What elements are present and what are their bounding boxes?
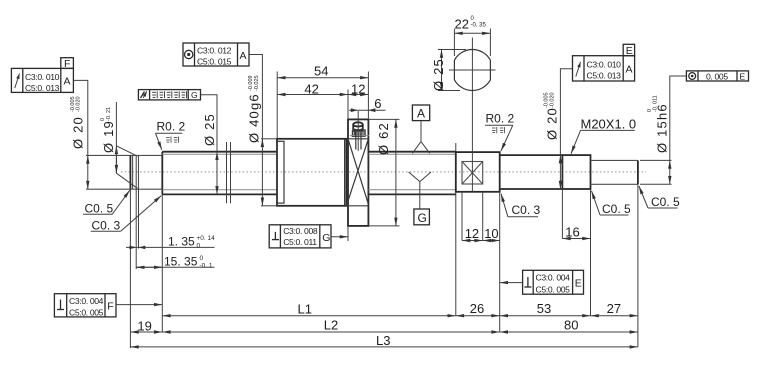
C0.3 right leader xyxy=(501,194,508,217)
thread boundary mark 1 xyxy=(226,142,228,203)
dim L3 line xyxy=(130,346,638,348)
left end chamfer line xyxy=(132,155,134,189)
circle detail vertical centerline down to keyseat xyxy=(471,38,473,192)
bolt head body xyxy=(353,124,363,130)
svg-text:-0. 21: -0. 21 xyxy=(106,107,112,121)
M20 underline xyxy=(581,129,635,131)
O25 screw section top outline right xyxy=(368,151,455,153)
R0.2 left leader xyxy=(156,133,162,150)
svg-text:80: 80 xyxy=(564,318,578,333)
flange top inner line across X xyxy=(348,138,368,140)
nut body right chamfer line xyxy=(344,139,346,206)
svg-text:6: 6 xyxy=(374,96,381,111)
dim 42 line xyxy=(277,94,348,96)
C0.5 right1 underline xyxy=(600,214,629,216)
dim O20 right arrow span xyxy=(559,155,561,189)
dim O25 circle ext top xyxy=(438,49,466,51)
svg-text:C3:0. 010: C3:0. 010 xyxy=(25,72,60,82)
dim 19 line xyxy=(130,331,162,333)
svg-text:A: A xyxy=(240,50,247,62)
datum G chevron xyxy=(409,172,431,182)
dim O25 left arrow span xyxy=(216,152,218,195)
ext line nut body left up xyxy=(276,72,278,139)
svg-text:F: F xyxy=(107,300,113,312)
bolt centerline xyxy=(357,111,359,151)
datum G box xyxy=(414,209,430,225)
svg-text:Ø 62: Ø 62 xyxy=(376,122,391,155)
M20 thread block outline xyxy=(562,155,590,189)
ext M20 left down xyxy=(561,189,563,239)
svg-text:0: 0 xyxy=(200,255,204,262)
C0.5 left underline xyxy=(83,213,112,215)
O20 right journal bottom edge xyxy=(500,188,563,190)
svg-text:C5:0. 013: C5:0. 013 xyxy=(587,70,622,80)
svg-text:Ø 20: Ø 20 xyxy=(545,107,560,140)
datum A chevron xyxy=(412,142,429,154)
dim 15.35 line xyxy=(136,266,214,268)
dim 53 line xyxy=(500,315,591,317)
centerline shaft axis xyxy=(121,171,646,173)
svg-text:-0. 1: -0. 1 xyxy=(200,263,213,270)
O25 screw section bottom outline right xyxy=(368,193,455,195)
feature frame top-left circular runout C3/C5 datum A xyxy=(11,68,73,93)
C0.3 left underline xyxy=(91,230,121,232)
flange bottom inner line across X xyxy=(348,205,368,207)
screw thread root line top left xyxy=(162,153,277,155)
datum E box top-right xyxy=(623,44,634,57)
svg-text:C3:0. 008: C3:0. 008 xyxy=(283,226,318,236)
R0.2 left underline xyxy=(156,132,183,134)
feature frame bottom-mid perpendicularity C3/C5 datum E xyxy=(500,270,584,294)
screw thread root line bottom right xyxy=(368,189,455,191)
dim O15h6 ext top xyxy=(640,159,672,161)
circle detail horizontal centerline xyxy=(449,69,496,71)
svg-text:-0.020: -0.020 xyxy=(76,96,82,112)
R0.2 left small korean xyxy=(166,137,178,143)
svg-text:C0. 3: C0. 3 xyxy=(92,219,121,233)
dim 1.35 arrow right xyxy=(139,246,146,250)
dim 6 line with outside arrows xyxy=(349,109,386,111)
dim 1.35 arrow left xyxy=(129,246,136,250)
svg-text:Ø 20: Ø 20 xyxy=(71,116,86,149)
flange cross X diagonal 2 xyxy=(348,139,368,205)
O25 screw section top outline left xyxy=(162,151,277,153)
dim O62 line xyxy=(395,119,397,225)
feature frame concentricity C3/C5 datum A xyxy=(183,43,249,67)
dim O20 right line with leader from E frame xyxy=(560,69,572,155)
bolt washer small block xyxy=(352,131,355,136)
svg-text:12: 12 xyxy=(465,226,479,241)
dim O40g6 arrow span xyxy=(261,139,263,206)
flange outline xyxy=(348,119,368,225)
keyseat X diagonal 2 xyxy=(462,162,483,185)
dim L1 line xyxy=(162,315,456,317)
svg-text:L1: L1 xyxy=(298,302,312,317)
bolt washer inner line 1 xyxy=(354,131,365,133)
feature frame top-right circular runout C3/C5 datum A xyxy=(573,56,635,81)
svg-text:C3:0. 010: C3:0. 010 xyxy=(587,59,622,69)
relief groove right edge xyxy=(138,155,140,189)
ext line flange right up xyxy=(367,72,369,120)
svg-text:E: E xyxy=(575,277,582,289)
svg-text:C0. 3: C0. 3 xyxy=(512,203,541,217)
ext line groove left down xyxy=(135,189,137,269)
O20 right journal top edge xyxy=(500,154,563,156)
svg-text:C5:0. 015: C5:0. 015 xyxy=(197,57,232,67)
svg-text:C3:0. 012: C3:0. 012 xyxy=(197,46,232,56)
svg-text:C5:0. 013: C5:0. 013 xyxy=(25,83,60,93)
svg-text:42: 42 xyxy=(304,81,318,96)
ext block right down xyxy=(499,192,501,332)
C0.3 right underline xyxy=(508,216,538,218)
dim L2 line xyxy=(162,331,499,333)
svg-text:C3:0. 004: C3:0. 004 xyxy=(536,273,571,283)
svg-text:G: G xyxy=(191,90,198,100)
bolt washer outline xyxy=(354,130,365,136)
bearing journal block outline xyxy=(456,152,500,192)
dim 12 bottom line xyxy=(462,240,483,242)
R0.2 right underline xyxy=(485,124,513,126)
dim O40g6 line with leader from frame xyxy=(249,55,262,139)
bolt seat gray line xyxy=(350,135,369,137)
dim 54 line xyxy=(277,77,368,79)
ext line groove right down xyxy=(138,189,140,248)
dim 10 bottom line xyxy=(483,240,500,242)
svg-text:0: 0 xyxy=(197,243,201,250)
dim O62 ext top xyxy=(368,118,399,120)
svg-text:A: A xyxy=(626,64,633,76)
ext line flange left up xyxy=(347,90,349,120)
svg-text:1. 35: 1. 35 xyxy=(168,235,195,249)
bolt head top ellipse xyxy=(353,122,363,126)
R0.2 right korean xyxy=(492,127,505,133)
svg-text:R0. 2: R0. 2 xyxy=(486,112,515,126)
feature frame concentricity 0.005 datum E far right xyxy=(686,71,748,82)
dim O19 line xyxy=(115,102,117,146)
svg-text:M20X1. 0: M20X1. 0 xyxy=(581,117,637,132)
svg-text:0. 005: 0. 005 xyxy=(706,71,728,81)
svg-text:C5:0. 011: C5:0. 011 xyxy=(283,237,317,247)
dim 12 top line xyxy=(348,94,368,96)
dim 15.35 arrows xyxy=(136,266,162,268)
svg-text:19: 19 xyxy=(137,319,151,334)
svg-text:54: 54 xyxy=(314,64,328,79)
ext keyseat right down xyxy=(482,192,484,241)
bolt head bottom arc xyxy=(353,129,363,130)
svg-text:15. 35: 15. 35 xyxy=(164,255,198,269)
svg-text:G: G xyxy=(418,211,427,225)
dim 22 line xyxy=(454,32,490,34)
dim 22 ext line left xyxy=(453,29,455,57)
svg-text:G: G xyxy=(322,232,330,244)
datum A stem xyxy=(420,121,422,142)
dim O25 circle line xyxy=(441,50,443,91)
svg-text:L2: L2 xyxy=(324,318,338,333)
svg-text:E: E xyxy=(740,72,746,82)
dim 22 ext line right xyxy=(489,29,491,57)
datum A box xyxy=(412,105,429,121)
nut body outline xyxy=(277,139,346,206)
svg-text:L3: L3 xyxy=(376,333,390,348)
svg-text:-0.020: -0.020 xyxy=(550,92,556,108)
flange left ext down to G arrow xyxy=(347,226,349,241)
svg-text:C0. 5: C0. 5 xyxy=(602,202,631,216)
dim O15h6 arrow span xyxy=(669,160,671,184)
svg-text:10: 10 xyxy=(484,226,498,241)
left journal O20 top edge + extension to dim xyxy=(86,154,162,156)
bolt washer inner line 2 xyxy=(354,133,365,135)
ext block left down xyxy=(455,203,457,315)
screw thread root line top right xyxy=(368,153,455,155)
right end face xyxy=(637,160,639,184)
thread end boundary line at journal xyxy=(455,143,457,203)
M20 leader xyxy=(571,130,581,153)
svg-text:16: 16 xyxy=(565,224,579,239)
svg-text:E: E xyxy=(626,45,633,57)
ext keyseat left down xyxy=(461,192,463,241)
left journal O20 bottom edge + extension to dim xyxy=(86,188,162,190)
svg-text:-0. 011: -0. 011 xyxy=(653,95,659,112)
flange cross X diagonal 1 xyxy=(346,139,368,206)
dim 80 line xyxy=(500,331,638,333)
cross-section circle detail O25 with flats xyxy=(454,50,490,91)
thread boundary mark 2 xyxy=(230,142,232,203)
svg-text:C5:0. 005: C5:0. 005 xyxy=(69,307,104,317)
svg-text:53: 53 xyxy=(537,301,551,316)
dim O20 left arrow span xyxy=(87,155,89,189)
ext right end down xyxy=(637,184,639,347)
svg-text:Ø 19: Ø 19 xyxy=(101,120,116,153)
nut body inset ring xyxy=(277,141,284,203)
datum G stem xyxy=(419,182,421,209)
dim 6 arrow right xyxy=(368,108,375,112)
O19 oblique extension bottom xyxy=(116,173,137,188)
C0.5 left leader xyxy=(112,190,130,214)
surface roughness note frame with G xyxy=(138,90,200,100)
left end face xyxy=(129,155,131,189)
R0.2 right leader xyxy=(501,125,513,151)
ext line left face down xyxy=(129,189,131,348)
C0.5 right2 underline xyxy=(648,207,678,209)
step face O20 to O25 xyxy=(161,152,163,195)
keyseat box xyxy=(462,162,483,185)
dim 16 line xyxy=(562,238,590,240)
O15 end section top edge + ext xyxy=(591,159,638,161)
svg-text:C5:0. 005: C5:0. 005 xyxy=(536,284,571,294)
svg-text:Ø 25: Ø 25 xyxy=(202,113,217,146)
svg-text:Ø 40g6: Ø 40g6 xyxy=(247,93,262,143)
dim O40g6 ext top xyxy=(261,138,277,140)
svg-text:+0. 14: +0. 14 xyxy=(197,235,216,242)
keyseat X diagonal 1 xyxy=(462,162,483,185)
svg-text:-0.025: -0.025 xyxy=(254,75,260,91)
dim O15h6 line with leader from runout frame xyxy=(670,76,687,160)
ext line step down xyxy=(161,194,163,332)
svg-text:22: 22 xyxy=(455,17,469,32)
dim 26 line xyxy=(456,315,500,317)
svg-text:12: 12 xyxy=(351,81,365,96)
dim 27 line xyxy=(591,315,638,317)
C0.3 left leader xyxy=(121,196,162,232)
dim O19 arrow down xyxy=(115,146,117,173)
relief groove left edge xyxy=(135,155,137,189)
dim O19 arrow up xyxy=(115,146,117,173)
datum F box top-left xyxy=(61,58,74,70)
dim O15h6 ext bottom xyxy=(640,183,672,185)
dim O62 ext bottom xyxy=(368,225,399,227)
svg-text:C0. 5: C0. 5 xyxy=(651,195,680,209)
surface finish frame leader to O25 dim xyxy=(201,95,218,152)
O25 screw section bottom outline left xyxy=(162,193,277,195)
svg-text:A: A xyxy=(417,107,425,121)
svg-text:F: F xyxy=(64,58,70,70)
dim O25 circle ext bottom xyxy=(438,90,460,92)
svg-text:C0. 5: C0. 5 xyxy=(85,202,114,216)
O15 end section bottom edge + ext xyxy=(591,183,638,185)
feature frame mid perpendicularity C3/C5 datum G xyxy=(269,225,348,248)
C0.5 right1 leader xyxy=(592,191,601,215)
dim O20 left line with leader from F frame xyxy=(73,80,87,155)
svg-text:R0. 2: R0. 2 xyxy=(157,120,186,134)
C0.5 right2 leader xyxy=(639,186,648,208)
dim 6 arrow left xyxy=(351,108,358,112)
O19 oblique extension top xyxy=(116,146,137,156)
svg-text:Ø 25: Ø 25 xyxy=(431,58,446,91)
svg-text:-0. 35: -0. 35 xyxy=(471,23,487,29)
dim 1.35 line xyxy=(126,246,215,248)
svg-text:26: 26 xyxy=(470,301,484,316)
svg-text:27: 27 xyxy=(607,301,621,316)
bolt shank right xyxy=(360,132,362,149)
svg-text:C3:0. 004: C3:0. 004 xyxy=(69,296,104,306)
svg-text:A: A xyxy=(64,76,71,88)
feature frame bottom-left perpendicularity C3/C5 datum F xyxy=(54,294,162,318)
ext M20 right down xyxy=(590,189,592,316)
bolt shank left xyxy=(355,132,357,149)
screw thread root line bottom left xyxy=(162,189,277,191)
dim O40g6 ext bottom xyxy=(261,205,277,207)
